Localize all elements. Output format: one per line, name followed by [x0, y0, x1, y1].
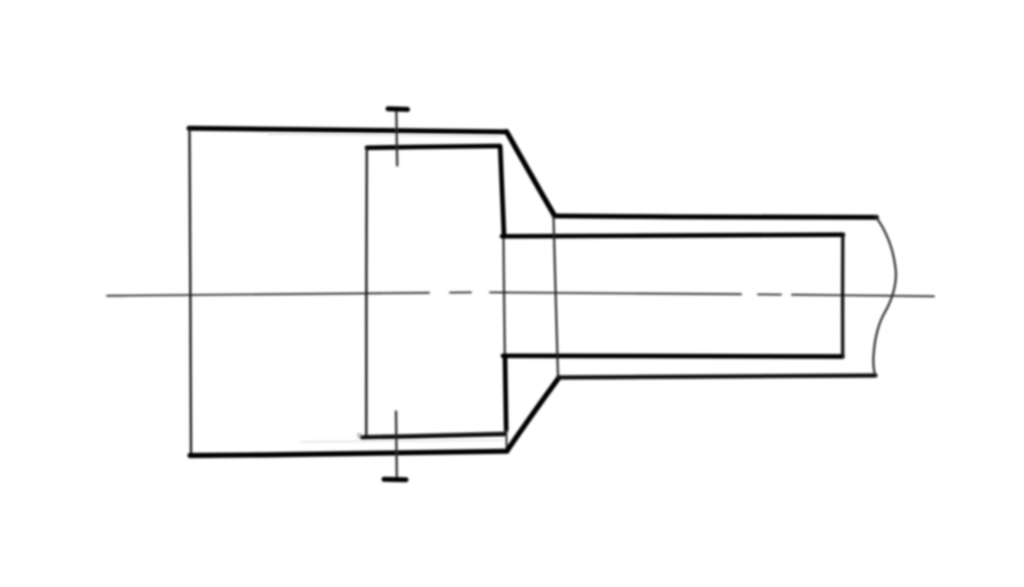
transition bottom diagonal: [507, 378, 559, 451]
bottom datum tick stem: [395, 412, 398, 479]
flange top edge: [189, 128, 506, 132]
top datum tick stem: [395, 108, 398, 166]
shaft inner bore right edge: [841, 234, 845, 357]
hub top edge: [367, 146, 500, 148]
bottom datum tick cap: [384, 477, 406, 482]
break line (wavy end): [873, 216, 896, 377]
flange bottom edge pencil echo: [300, 440, 503, 442]
shaft inner bore top edge: [502, 235, 843, 237]
hub right edge middle (thin, across shaft): [504, 237, 505, 355]
hub bottom edge: [362, 434, 504, 437]
flange bottom edge: [190, 451, 507, 455]
hub right edge lower thin tail: [505, 430, 508, 451]
top datum tick cap: [388, 106, 408, 112]
hub bottom start hook: [358, 433, 362, 437]
shaft inner bore bottom edge: [503, 353, 843, 358]
centerline (horizontal axis, dash-dot): [107, 292, 934, 296]
hub left edge: [365, 149, 368, 435]
flange top edge pencil echo: [268, 134, 500, 136]
shaft outer bottom edge: [558, 376, 876, 378]
hub right edge upper (thick): [500, 147, 504, 236]
shaft outer top edge: [554, 216, 877, 217]
transition top diagonal: [507, 132, 555, 216]
hub right edge lower (thick): [505, 357, 506, 431]
flange left edge: [190, 129, 192, 455]
shoulder projection line (thin, across shaft): [554, 217, 559, 378]
